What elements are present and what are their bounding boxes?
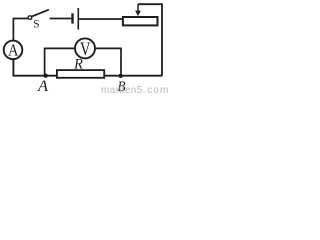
rheostat wiper arrow: [135, 4, 141, 16]
node A (junction dot): [43, 74, 47, 78]
svg-text:manfen5.: manfen5.: [101, 85, 146, 95]
voltmeter V1: [75, 38, 95, 60]
wire bottom right (B to right corner): [105, 75, 162, 77]
battery cell: long plate (positive): [77, 8, 79, 30]
svg-text:S: S: [33, 19, 39, 31]
wire voltmeter to right riser: [96, 48, 121, 75]
svg-text:A: A: [8, 41, 19, 60]
wire left riser of parallel branch: [45, 48, 75, 75]
svg-text:A: A: [37, 78, 48, 95]
battery cell: short plate (negative): [71, 13, 73, 23]
wire switch to battery: [50, 18, 72, 20]
rheostat body: [123, 17, 158, 25]
wire battery to rheostat: [79, 18, 122, 20]
wire top-left horizontal + left vertical upper: [13, 19, 27, 41]
svg-text:com: com: [147, 85, 168, 95]
wire wiper to top-right corner and right vertical: [138, 4, 162, 76]
node B (junction dot): [119, 74, 123, 78]
ammeter A1: [4, 41, 23, 60]
switch S: [28, 10, 49, 31]
resistor R: [57, 70, 104, 78]
svg-text:V: V: [80, 40, 91, 60]
wire bottom left (corner to resistor): [13, 60, 56, 76]
